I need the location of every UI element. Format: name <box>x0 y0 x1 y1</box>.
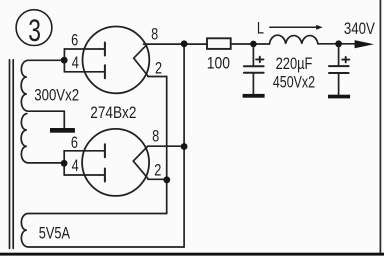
center tap ground bar <box>50 128 75 133</box>
transformer HV winding upper half 300Vx2 <box>21 60 64 111</box>
svg-text:4: 4 <box>72 156 79 175</box>
inductor L coil <box>270 35 318 44</box>
U2 pin 6 plate bar <box>104 144 106 157</box>
tube U2 circle <box>82 129 149 196</box>
current direction arrow over L <box>270 26 318 28</box>
U1 filament chevron <box>134 44 148 76</box>
node dot U1 plates junction <box>61 57 68 64</box>
svg-text:220µF: 220µF <box>276 54 313 73</box>
border right line <box>379 0 381 253</box>
svg-text:2: 2 <box>154 161 161 180</box>
main bus wire <box>144 43 208 45</box>
border bottom bar <box>0 253 384 256</box>
U1 pin 6 wire <box>64 48 105 50</box>
U1 pin 4 wire <box>64 71 105 73</box>
svg-text:8: 8 <box>151 25 158 44</box>
node dot U2 pin8 junction <box>181 143 188 150</box>
svg-text:300Vx2: 300Vx2 <box>34 86 79 105</box>
C2 ground bar <box>328 95 350 99</box>
node dot U2 pin2 junction <box>163 176 170 183</box>
C2 bottom stem <box>338 74 340 95</box>
node dot bus junction <box>181 40 188 47</box>
C2 plus sign <box>342 57 349 63</box>
B+ vertical wire bus to 5V winding bottom <box>183 44 185 247</box>
transformer 5V winding <box>21 214 184 248</box>
C1 ground bar <box>243 94 265 98</box>
svg-text:4: 4 <box>72 53 79 72</box>
C2 bottom plate <box>329 72 349 74</box>
U1 pin 4 plate bar <box>104 65 106 78</box>
svg-text:100: 100 <box>207 54 231 73</box>
U2 pin 2 wire <box>148 178 167 180</box>
svg-text:6: 6 <box>71 133 78 152</box>
wire resistor to C1 node <box>231 43 270 45</box>
U1 pin 6 plate bar <box>104 43 106 56</box>
svg-text:450Vx2: 450Vx2 <box>273 74 315 92</box>
transformer core <box>9 60 11 249</box>
svg-text:340V: 340V <box>344 19 376 38</box>
transformer HV winding lower half <box>21 114 61 163</box>
svg-text:3: 3 <box>28 13 41 48</box>
svg-text:L: L <box>257 19 264 38</box>
U2 filament chevron <box>133 147 148 179</box>
tube U1 circle <box>83 27 150 94</box>
C1 top plate <box>244 65 264 67</box>
node dot U2 plates junction <box>61 160 68 167</box>
U1 plate bracket wire <box>63 49 65 72</box>
center tap wire <box>63 111 65 128</box>
U2 plate bracket wire <box>63 151 65 175</box>
node dot C1 junction <box>250 41 257 48</box>
output arrow 340V <box>355 40 374 48</box>
U2 pin 6 wire <box>64 150 105 152</box>
node dot C2 junction <box>335 40 342 47</box>
capacitor C2 top stem <box>338 47 340 65</box>
U2 pin 4 wire <box>64 174 105 176</box>
capacitor C1 top stem <box>252 47 254 65</box>
C1 bottom stem <box>252 74 254 94</box>
C2 top plate <box>329 65 349 67</box>
svg-text:2: 2 <box>155 59 162 78</box>
U2 pin 8 wire <box>147 145 184 147</box>
svg-text:5V5A: 5V5A <box>39 224 70 243</box>
U1 pin 2 wire to 5V winding <box>148 77 167 214</box>
wire coil to C2 node <box>318 43 355 45</box>
svg-text:8: 8 <box>152 127 159 146</box>
C1 bottom plate <box>244 72 264 74</box>
resistor R 100 body <box>207 38 231 49</box>
svg-text:274Bx2: 274Bx2 <box>90 103 136 122</box>
svg-text:6: 6 <box>71 31 78 50</box>
C1 plus sign <box>256 57 263 63</box>
U2 pin 4 plate bar <box>104 169 106 182</box>
circled 3 badge <box>16 10 52 46</box>
